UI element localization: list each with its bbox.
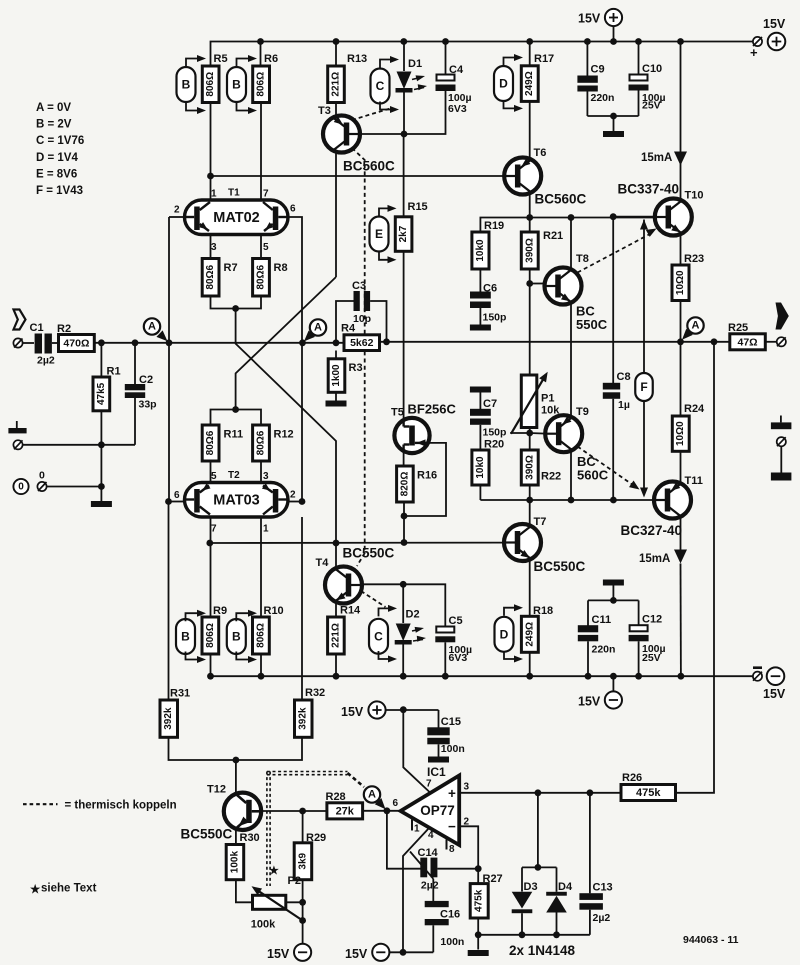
svg-text:B: B: [181, 630, 190, 644]
svg-text:2µ2: 2µ2: [593, 912, 611, 924]
wire -15V rail bottom: [389, 951, 433, 953]
wire R21 to T8 base: [529, 269, 531, 284]
svg-text:5k62: 5k62: [350, 337, 374, 349]
junction op-amp input: [384, 807, 391, 814]
connector output terminal: [777, 337, 786, 346]
capacitor C8: [603, 383, 620, 390]
junction main rail: [132, 339, 139, 346]
svg-text:BC327-40: BC327-40: [621, 523, 683, 538]
wire bias rail y217: [480, 218, 654, 233]
svg-text:249Ω: 249Ω: [524, 622, 535, 647]
wire to gnd: [613, 116, 615, 131]
junction R7R8: [232, 305, 239, 312]
svg-text:R15: R15: [408, 201, 428, 213]
svg-text:80Ω6: 80Ω6: [256, 430, 267, 455]
wire T8 collector: [570, 218, 572, 269]
transistor T9 BC560C: [545, 415, 582, 452]
power +15V top supply circle: [605, 9, 622, 26]
wire T6 base rail y176: [211, 175, 505, 177]
svg-text:T12: T12: [207, 784, 226, 796]
svg-text:15V: 15V: [345, 947, 368, 961]
svg-text:2: 2: [290, 490, 296, 501]
ground top middle: [603, 131, 624, 137]
wire R23 to output rail: [680, 301, 682, 342]
wire T3 base to D1/C4: [360, 133, 446, 136]
svg-text:= thermisch koppeln: = thermisch koppeln: [65, 800, 177, 812]
wire T4 base right: [362, 583, 403, 585]
transistor T3 BC560C: [323, 116, 360, 153]
svg-text:R30: R30: [240, 832, 260, 844]
op-amp IC1 OP77: [401, 776, 460, 846]
dashed thermal T9 to T11: [578, 447, 634, 486]
junction C8 bottom: [610, 497, 617, 504]
svg-text:D: D: [499, 77, 508, 91]
wire 15V supply stub: [613, 26, 615, 42]
ground C15: [428, 757, 449, 763]
capacitor C6: [479, 269, 481, 292]
svg-text:100k: 100k: [251, 919, 276, 931]
resistor R19: [472, 232, 489, 269]
test oval E: [370, 217, 389, 252]
wire T10 emitter to R23: [680, 236, 682, 266]
wire input to C1: [23, 342, 35, 344]
svg-text:3: 3: [211, 242, 217, 253]
bar symbol input shield: [8, 428, 26, 433]
junction R11R12: [232, 406, 239, 413]
svg-text:C2: C2: [139, 374, 153, 386]
svg-text:550C: 550C: [576, 317, 608, 332]
svg-text:10k0: 10k0: [475, 239, 486, 262]
junction T4 rail: [333, 540, 340, 547]
svg-text:R13: R13: [347, 53, 367, 65]
svg-text:C6: C6: [483, 283, 497, 295]
wire rail to T10 collector: [680, 42, 682, 199]
dashed thermal T8 to T10: [578, 234, 651, 273]
wire R3 to gnd: [335, 392, 337, 401]
svg-text:15mA: 15mA: [641, 152, 672, 164]
potentiometer P2: [253, 895, 286, 909]
wire bias rail y500: [480, 499, 654, 501]
dual transistor T2 MAT03 body: [185, 483, 289, 518]
svg-text:150p: 150p: [483, 312, 507, 324]
wire R17 to T6: [529, 101, 531, 157]
wire R15 to T5 drain: [403, 251, 405, 418]
dashed T12 horizontal a: [267, 771, 348, 773]
potentiometer P1: [521, 375, 537, 428]
resistor R22: [521, 450, 538, 485]
bar output return bottom: [771, 473, 792, 481]
svg-text:A = 0V: A = 0V: [36, 102, 71, 114]
arrows E to R15: [379, 208, 394, 216]
wire T2 pin2: [287, 501, 303, 503]
transistor T7 BC550C: [504, 524, 541, 561]
svg-text:R14: R14: [340, 605, 361, 617]
T2 left transistor symbol: [194, 489, 200, 513]
capacitor C13: [589, 793, 591, 894]
junction diode bracket: [535, 864, 542, 871]
test oval B1: [177, 67, 196, 102]
svg-text:IC1: IC1: [427, 765, 446, 779]
junction C13 tap: [587, 789, 594, 796]
svg-text:2µ2: 2µ2: [421, 880, 439, 892]
resistor R23: [672, 265, 689, 301]
dashed thermal T4 to D2: [361, 591, 386, 607]
dashed T12 vertical b: [269, 772, 271, 887]
svg-text:B = 2V: B = 2V: [36, 119, 72, 131]
wire main rail right segment: [380, 341, 730, 343]
power +15V right circle: [768, 33, 786, 51]
wire pin7 to R9: [210, 517, 212, 617]
test point A2: [310, 319, 326, 335]
transistor T8 BC550C: [545, 268, 582, 305]
svg-text:C = 1V76: C = 1V76: [36, 135, 84, 147]
svg-text:BC337-40: BC337-40: [618, 182, 680, 197]
wire diode bottom rail: [478, 934, 590, 936]
svg-text:475k: 475k: [636, 787, 661, 799]
svg-text:R21: R21: [543, 230, 563, 242]
svg-text:560C: 560C: [577, 468, 609, 483]
wire T8 emitter to rail to T9: [570, 304, 572, 416]
svg-text:R10: R10: [264, 605, 284, 617]
wire R18 bottom: [529, 652, 531, 676]
resistor R1: [93, 377, 110, 411]
svg-text:D4: D4: [558, 881, 573, 893]
svg-text:33p: 33p: [139, 399, 157, 411]
svg-text:R5: R5: [214, 53, 228, 65]
svg-text:+: +: [448, 786, 456, 801]
resistor R25: [730, 334, 766, 350]
test oval C2: [369, 619, 388, 654]
connector output return: [777, 437, 786, 446]
capacitor C5: [403, 584, 445, 626]
svg-text:A: A: [692, 320, 700, 332]
wire T8 base to P1: [529, 284, 531, 376]
svg-text:R16: R16: [417, 470, 437, 482]
wire R22 top: [529, 433, 531, 450]
svg-text:2k7: 2k7: [398, 225, 409, 242]
svg-text:R9: R9: [213, 605, 227, 617]
dashed arrow to A4: [348, 773, 365, 787]
wire D1 node down to R15: [403, 134, 405, 217]
svg-text:47k5: 47k5: [96, 382, 107, 405]
svg-text:47Ω: 47Ω: [737, 336, 757, 348]
svg-text:R19: R19: [484, 220, 504, 232]
svg-text:150p: 150p: [483, 427, 507, 439]
junction T7 collector: [526, 497, 533, 504]
svg-text:R3: R3: [349, 362, 363, 374]
svg-text:T11: T11: [685, 475, 703, 487]
wire to R27: [477, 869, 479, 884]
wire feedback R26 up: [676, 342, 715, 793]
capacitor C2: [134, 343, 136, 385]
svg-text:7: 7: [211, 524, 217, 535]
svg-text:R31: R31: [170, 688, 190, 700]
svg-text:D: D: [500, 627, 509, 641]
capacitor C11: [587, 600, 589, 625]
input arrow symbol: [14, 310, 26, 330]
svg-text:R12: R12: [274, 429, 294, 441]
junction node R5/T1: [207, 173, 214, 180]
diode D4 1N4148: [556, 867, 558, 891]
svg-text:BC560C: BC560C: [535, 192, 587, 207]
svg-text:806Ω: 806Ω: [205, 623, 216, 648]
svg-text:R11: R11: [224, 429, 244, 441]
svg-text:8: 8: [449, 844, 455, 855]
svg-text:T1: T1: [228, 188, 240, 199]
svg-text:10p: 10p: [353, 313, 371, 325]
transistor T10 BC337-40: [655, 199, 692, 236]
svg-text:3: 3: [263, 471, 269, 482]
wire R28 to op-amp: [363, 810, 402, 812]
svg-text:R29: R29: [306, 832, 326, 844]
svg-text:3: 3: [464, 782, 470, 793]
svg-text:100n: 100n: [440, 936, 464, 948]
resistor R18: [521, 616, 538, 652]
svg-text:C4: C4: [449, 64, 464, 76]
current arrow 15mA T10: [674, 152, 687, 166]
junction T8 col: [568, 214, 575, 221]
arrows Dpt to R17: [504, 58, 521, 66]
svg-text:F = 1V43: F = 1V43: [36, 185, 83, 197]
connector input 2: [13, 440, 22, 449]
connector input terminal: [13, 338, 22, 347]
junction R16/T4 node: [401, 539, 408, 546]
wire R31/R32 bottoms: [169, 737, 303, 760]
wire T4 collector up: [335, 543, 337, 567]
LED D1: [403, 42, 405, 72]
svg-text:★: ★: [30, 883, 41, 896]
resistor R7: [202, 259, 219, 297]
junction bottom rail: [442, 673, 449, 680]
svg-text:2x 1N4148: 2x 1N4148: [509, 943, 576, 958]
svg-text:MAT02: MAT02: [213, 210, 259, 226]
svg-text:R26: R26: [622, 772, 642, 784]
svg-text:221Ω: 221Ω: [331, 72, 342, 97]
wire T2 pin6 to input node: [169, 501, 185, 503]
junction main rail: [299, 339, 306, 346]
svg-text:E: E: [375, 227, 383, 241]
junction top rail: [677, 38, 684, 45]
wire P1 wiper to base node: [511, 432, 530, 435]
svg-text:C1: C1: [30, 322, 44, 334]
ground R27: [468, 950, 489, 956]
wire R17 top: [529, 42, 531, 66]
svg-text:6V3: 6V3: [449, 652, 468, 664]
transistor T5 BF256C JFET: [394, 418, 429, 453]
wire down to R31: [168, 502, 170, 701]
svg-text:1k00: 1k00: [331, 364, 342, 387]
svg-text:6V3: 6V3: [448, 103, 467, 115]
wire R6 top: [260, 42, 262, 67]
svg-text:E = 8V6: E = 8V6: [36, 168, 77, 180]
junction top rail: [400, 38, 407, 45]
wire +15V to C15: [386, 709, 439, 711]
svg-text:25V: 25V: [642, 652, 661, 664]
wire to gnd input: [100, 500, 102, 503]
svg-text:T7: T7: [534, 516, 547, 528]
wire rail to R24: [680, 342, 682, 416]
resistor R9: [202, 617, 219, 654]
junction T2 pin2: [299, 498, 306, 505]
junction top rail: [526, 38, 533, 45]
wire +15V top rail: [211, 42, 757, 67]
svg-text:+: +: [750, 45, 758, 60]
junction op7 supply: [400, 706, 407, 713]
svg-text:B: B: [182, 78, 191, 92]
wire to gnd R27: [477, 935, 479, 950]
test point A3: [687, 317, 703, 333]
svg-text:D3: D3: [524, 881, 538, 893]
capacitor C14: [420, 858, 427, 878]
svg-text:0: 0: [39, 470, 45, 482]
resistor R10: [253, 617, 270, 654]
junction top rail: [333, 38, 340, 45]
T1 left transistor symbol: [194, 207, 200, 231]
wire R11/R12 tops: [211, 410, 262, 426]
svg-text:100k: 100k: [229, 851, 240, 874]
svg-text:4: 4: [428, 830, 434, 841]
wire pin2 to R32: [301, 517, 303, 700]
connector +15V terminal: [753, 37, 762, 46]
svg-text:R22: R22: [541, 471, 561, 483]
wire main rail left segment: [94, 342, 344, 344]
resistor R20: [472, 450, 489, 485]
svg-text:470Ω: 470Ω: [63, 338, 89, 350]
junction C9/C10 gnd: [610, 113, 617, 120]
wire T3 collector down: [335, 153, 337, 278]
test point A1: [144, 318, 160, 334]
wire T6 collector down: [529, 195, 531, 218]
junction bottom rail: [585, 673, 592, 680]
wire to T9 base: [530, 432, 546, 435]
svg-text:R27: R27: [483, 873, 503, 885]
svg-text:C7: C7: [483, 398, 497, 410]
test oval B4: [227, 619, 246, 654]
wire T1 pin6 down to T2 pin2: [288, 217, 302, 502]
T5 gate arrow: [415, 442, 430, 444]
wire +15V supply to pin7: [403, 710, 429, 792]
ground C11C12: [603, 580, 624, 586]
wire R20 to rail 500: [479, 485, 481, 500]
svg-text:15mA: 15mA: [639, 553, 670, 565]
svg-text:2: 2: [174, 205, 180, 216]
junction R1/conn2: [98, 441, 105, 448]
svg-text:C15: C15: [441, 716, 461, 728]
power -15V right circle: [767, 667, 785, 685]
svg-text:A: A: [148, 321, 156, 333]
svg-text:C12: C12: [642, 614, 662, 626]
dashed thermal T3 to D1: [352, 109, 390, 121]
junction bottom rail: [207, 673, 214, 680]
svg-text:80Ω6: 80Ω6: [256, 264, 267, 289]
svg-text:806Ω: 806Ω: [256, 72, 267, 97]
wire to diodes: [537, 793, 539, 868]
svg-text:C: C: [374, 629, 383, 643]
svg-text:P2: P2: [288, 875, 301, 887]
wire R10 bottom: [260, 654, 262, 676]
svg-text:C13: C13: [593, 882, 613, 894]
svg-text:15V: 15V: [763, 687, 786, 701]
svg-text:D2: D2: [406, 609, 420, 621]
svg-text:220n: 220n: [591, 92, 615, 104]
wire T5 gate loop: [404, 443, 446, 516]
test oval B2: [227, 67, 246, 102]
wire -15V supply to pin4: [403, 828, 430, 953]
svg-text:BC550C: BC550C: [343, 546, 395, 561]
wire R25 to connector: [765, 341, 777, 343]
junction T9/T11: [568, 497, 575, 504]
resistor R3: [335, 351, 337, 359]
arrows C2 to D2: [379, 608, 395, 616]
svg-text:T10: T10: [685, 190, 704, 202]
capacitor C3: [336, 301, 354, 343]
test oval D2pt: [495, 617, 514, 652]
wire pin1 to R10: [260, 517, 262, 617]
svg-text:806Ω: 806Ω: [255, 623, 266, 648]
wire R7/R8 join: [211, 296, 262, 309]
resistor R13: [328, 66, 345, 103]
wire R21 top: [529, 218, 531, 233]
svg-text:10Ω0: 10Ω0: [675, 421, 686, 446]
wire R22 bottom: [529, 485, 531, 500]
junction MAT03 pin7 rail: [206, 540, 213, 547]
junction top rail: [257, 38, 264, 45]
svg-text:F: F: [640, 380, 647, 394]
junction main rail: [166, 339, 173, 346]
resistor R30: [226, 845, 244, 880]
svg-text:1µ: 1µ: [618, 399, 630, 411]
resistor R31: [160, 700, 178, 737]
wire -15V bottom rail: [211, 675, 753, 677]
junction D4 bottom: [553, 931, 560, 938]
wire pin3 to R7: [210, 235, 212, 259]
svg-text:C10: C10: [642, 63, 662, 75]
svg-text:1: 1: [414, 824, 420, 835]
resistor R27: [470, 884, 488, 918]
wire T12 to R28: [261, 810, 327, 812]
svg-text:5: 5: [263, 242, 269, 253]
svg-text:10Ω0: 10Ω0: [675, 270, 686, 295]
svg-text:B: B: [232, 78, 241, 92]
svg-text:OP77: OP77: [420, 803, 455, 818]
capacitor C7: [479, 393, 481, 410]
ground C7: [470, 387, 491, 393]
legend dashed thermisch koppeln: [23, 803, 58, 805]
resistor R12: [253, 425, 270, 461]
svg-text:100n: 100n: [441, 743, 465, 755]
wire R24 to T11: [680, 451, 682, 482]
resistor R14: [328, 617, 345, 654]
junction main rail: [711, 338, 718, 345]
svg-text:15V: 15V: [763, 17, 786, 31]
test point A4: [364, 786, 380, 802]
wire R16 to T7 base rail: [403, 502, 405, 543]
resistor R21: [521, 232, 538, 269]
svg-text:BF256C: BF256C: [408, 402, 457, 417]
junction D3 bottom: [519, 931, 526, 938]
capacitor C15: [438, 710, 440, 728]
transistor T12 BC550C: [224, 793, 261, 830]
svg-text:BC550C: BC550C: [534, 559, 586, 574]
capacitor C9: [586, 42, 588, 77]
test oval D1pt: [494, 66, 513, 101]
transistor T6 BC560C: [504, 158, 541, 195]
svg-text:R4: R4: [341, 323, 356, 335]
wire T10 base: [613, 216, 655, 218]
wire C1 to R2: [52, 342, 59, 344]
power -15V bottom middle circle: [612, 676, 614, 691]
wire 0 to junction: [47, 486, 102, 488]
